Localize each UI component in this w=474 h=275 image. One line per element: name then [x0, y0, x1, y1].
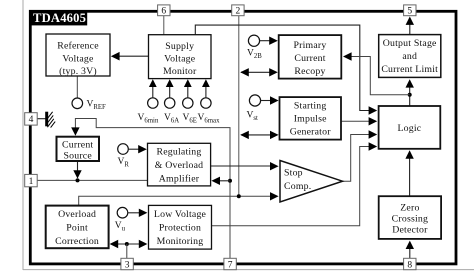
svg-text:Impulse: Impulse	[294, 114, 327, 125]
pin 2	[232, 5, 244, 17]
svg-text:Current Limit: Current Limit	[381, 64, 438, 75]
wire pin4 stub	[37, 118, 46, 120]
svg-text:7: 7	[228, 260, 233, 270]
wire junction to pin3	[126, 244, 128, 258]
svg-text:Source: Source	[63, 150, 92, 161]
svg-text:2: 2	[236, 7, 241, 17]
block Starting Impulse Generator	[280, 97, 342, 140]
svg-text:Point: Point	[66, 222, 88, 233]
svg-text:Current: Current	[294, 53, 325, 64]
wire starting impulse generator to logic	[341, 117, 377, 125]
svg-text:TDA4605: TDA4605	[33, 11, 86, 25]
junction pin7 net to regulating amplifier	[228, 179, 232, 183]
svg-text:Supply: Supply	[165, 41, 194, 52]
block Current Source	[57, 137, 100, 162]
block Regulating & Overload Amplifier	[148, 143, 211, 186]
svg-text:Generator: Generator	[290, 127, 332, 138]
node V2B circle	[247, 35, 278, 60]
arrow into current source top	[71, 127, 79, 135]
svg-text:Amplifier: Amplifier	[159, 174, 200, 185]
wire pin7 net with corner to current source	[75, 119, 230, 259]
svg-text:3: 3	[125, 260, 130, 270]
pin 7	[224, 258, 236, 270]
svg-text:Protection: Protection	[159, 222, 201, 233]
double arrow pin2 net to primary current recopy	[240, 68, 278, 76]
junction pin2 net on stop comparator input wire	[237, 194, 241, 198]
junction pin3 wire	[125, 242, 129, 246]
block Low Voltage Protection Monitoring	[149, 205, 212, 249]
svg-text:4: 4	[29, 115, 34, 125]
svg-text:and: and	[402, 51, 417, 62]
svg-text:Voltage: Voltage	[164, 54, 196, 65]
junction logic-output wire to primary current recopy branch	[408, 93, 412, 97]
pin 3	[121, 258, 133, 270]
page edge artifact vertical	[22, 0, 24, 270]
wire stop comparator output to logic	[343, 130, 378, 181]
node V6max circle with arrow	[198, 79, 221, 124]
wire overload point correction top to stop comparator bottom input	[79, 192, 279, 206]
arrow into zero crossing detector bottom	[406, 241, 414, 249]
block Supply Voltage Monitor	[149, 35, 212, 79]
arrow into output stage bottom	[406, 79, 414, 87]
node VREF circle	[72, 98, 106, 111]
wire current source bottom to junction	[77, 161, 79, 172]
pin 1	[25, 174, 38, 187]
wire regulating amplifier to stop comparator top input	[211, 162, 279, 170]
node Vst circle	[247, 95, 279, 122]
pin 6	[158, 5, 170, 17]
arrow into logic bottom	[405, 150, 413, 158]
arrow current source into pin1 net	[73, 170, 81, 178]
svg-text:Logic: Logic	[397, 123, 421, 134]
block Logic	[379, 106, 441, 149]
svg-text:Crossing: Crossing	[392, 214, 428, 225]
wire logic to output stage	[409, 86, 411, 107]
svg-text:Voltage: Voltage	[62, 54, 94, 65]
node V6A circle with arrow	[164, 79, 179, 124]
wire pin6 to supply voltage monitor	[163, 16, 165, 35]
wire zero crossing detector to logic	[409, 157, 411, 197]
block Reference Voltage	[46, 34, 110, 77]
svg-text:Output Stage: Output Stage	[383, 38, 437, 49]
wire supply monitor output to logic (top route)	[195, 25, 377, 115]
svg-text:Low Voltage: Low Voltage	[154, 209, 207, 220]
block Overload Point Correction	[46, 206, 109, 249]
svg-text:Detector: Detector	[392, 225, 428, 236]
wire reference voltage to VREF node	[76, 76, 78, 98]
node V6E circle with arrow	[183, 79, 197, 124]
svg-text:Reference: Reference	[57, 41, 99, 52]
wire supply monitor to reference voltage	[111, 52, 149, 61]
double arrow pin2 net to starting impulse generator	[240, 131, 278, 139]
block Zero Crossing Detector	[379, 196, 441, 239]
svg-text:Overload: Overload	[58, 209, 96, 220]
wire branch to primary current recopy right edge	[343, 52, 410, 94]
node VR circle	[118, 144, 147, 169]
svg-text:Regulating: Regulating	[157, 147, 202, 158]
junction current source output on pin1 net	[76, 178, 80, 182]
title TDA4605	[29, 10, 87, 25]
wire low voltage monitoring output to logic	[212, 142, 378, 226]
wire branch to regulating amplifier right edge	[211, 177, 230, 185]
svg-text:Comp.: Comp.	[284, 181, 311, 192]
block Output Stage and Current Limit	[379, 35, 441, 78]
pin 8	[404, 258, 416, 270]
double arrow overload point correction to low voltage monitoring	[110, 240, 148, 248]
arrow into pin5	[406, 17, 414, 25]
svg-text:8: 8	[407, 260, 412, 270]
svg-text:Starting: Starting	[294, 100, 327, 111]
node V6min circle with arrow	[138, 79, 159, 124]
svg-text:6: 6	[161, 7, 166, 17]
svg-text:Recopy: Recopy	[294, 66, 325, 77]
svg-text:Monitor: Monitor	[163, 66, 197, 77]
pin 5	[404, 5, 416, 17]
pin 4	[25, 113, 38, 126]
block Primary Current Recopy	[279, 35, 342, 79]
svg-text:Correction: Correction	[55, 236, 99, 247]
svg-text:Current: Current	[62, 139, 93, 150]
svg-text:Stop: Stop	[284, 167, 303, 178]
svg-text:1: 1	[29, 177, 34, 187]
node Vu circle	[115, 207, 148, 232]
svg-text:Zero: Zero	[400, 203, 419, 214]
svg-text:(typ. 3V): (typ. 3V)	[59, 66, 97, 77]
wire pin8 to zero crossing detector	[409, 247, 411, 258]
wire pin2 net vertical	[238, 16, 240, 197]
svg-text:Primary: Primary	[294, 40, 327, 51]
svg-text:& Overload: & Overload	[155, 160, 204, 171]
wire output stage to pin5	[409, 25, 411, 35]
wire pin1 net	[37, 179, 148, 181]
page edge artifact horizontal	[23, 269, 474, 271]
svg-text:Monitoring: Monitoring	[157, 236, 204, 247]
chassis hatch symbol	[46, 112, 56, 128]
svg-text:5: 5	[407, 7, 412, 17]
comparator Stop Comp	[280, 161, 343, 203]
